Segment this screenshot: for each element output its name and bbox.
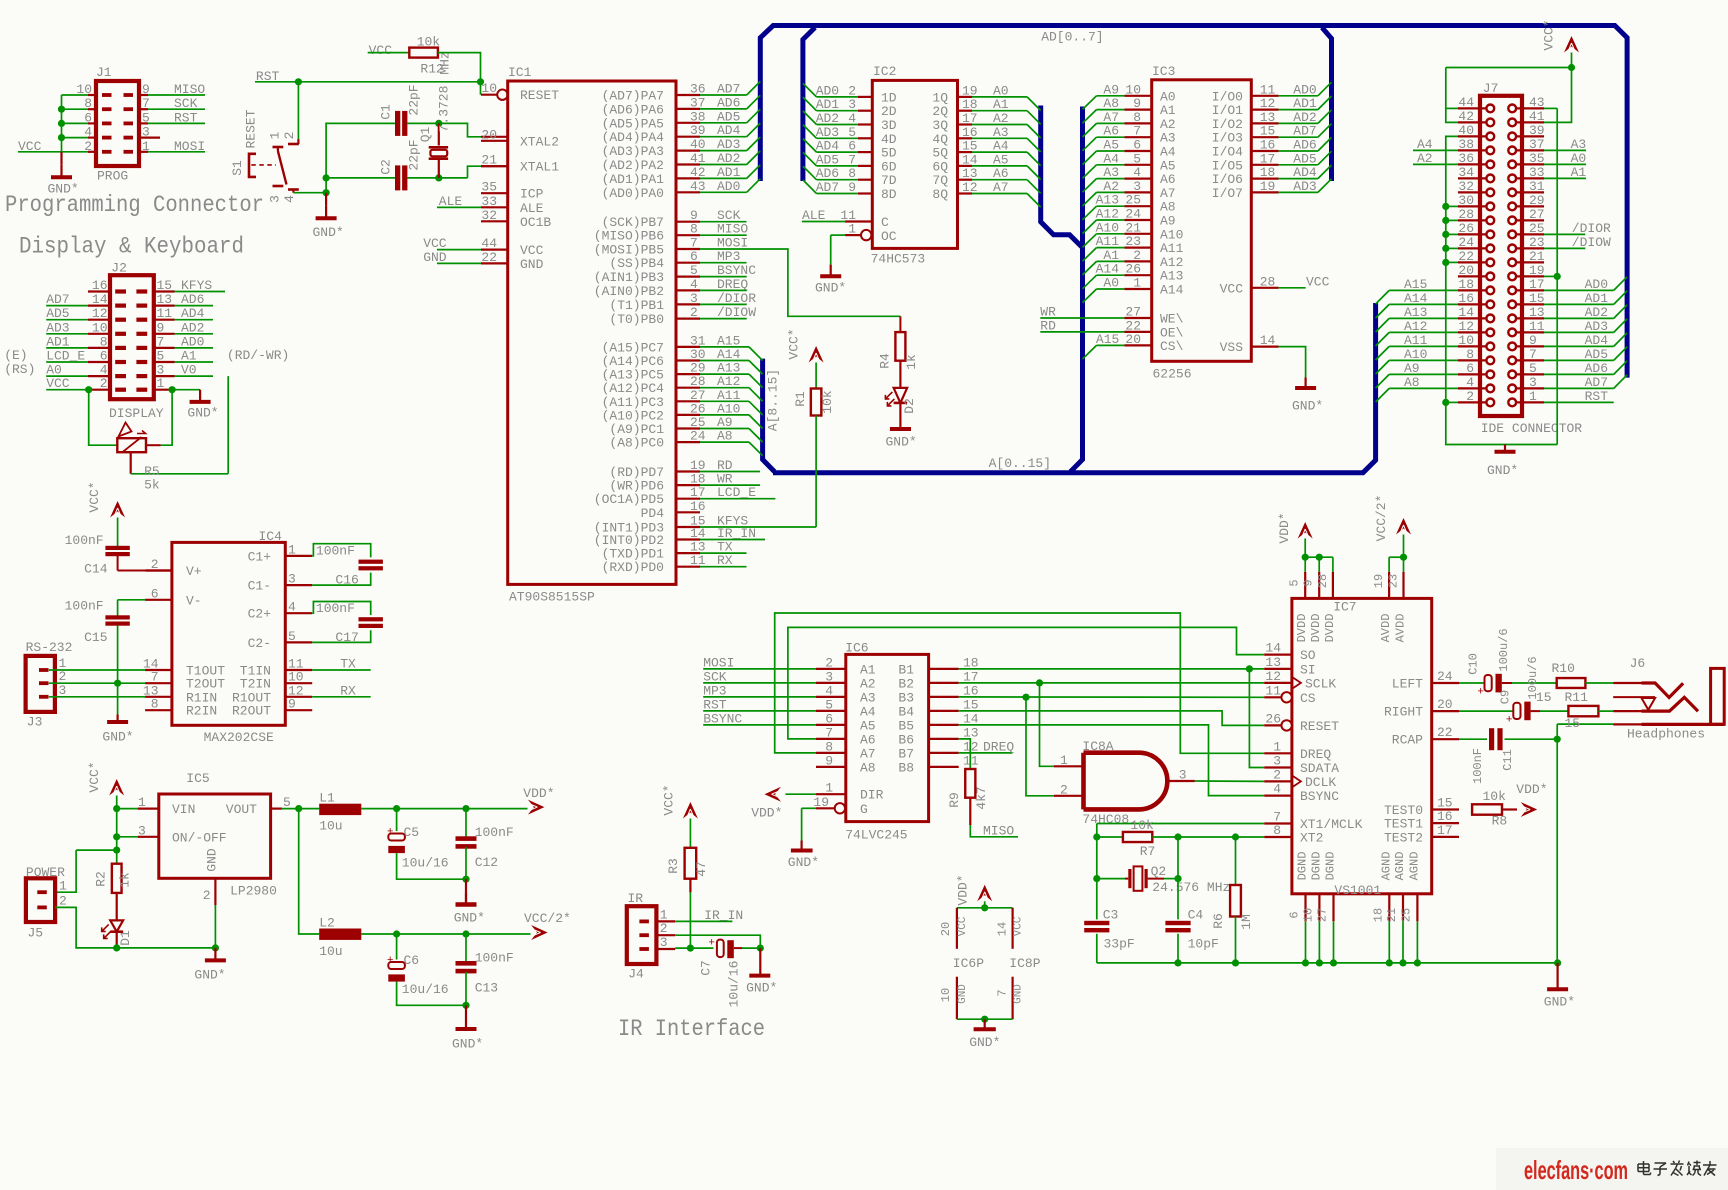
svg-text:IC8A: IC8A	[1082, 739, 1113, 754]
svg-text:GND*: GND*	[452, 1037, 483, 1052]
svg-text:R11: R11	[1565, 690, 1589, 705]
svg-text:36: 36	[1458, 151, 1474, 166]
svg-text:(AD6)PA6: (AD6)PA6	[602, 102, 664, 117]
svg-text:2: 2	[282, 132, 297, 140]
svg-text:13: 13	[1265, 655, 1281, 670]
svg-text:5: 5	[142, 110, 150, 125]
svg-text:10: 10	[1125, 82, 1141, 97]
svg-text:DCLK: DCLK	[1305, 775, 1336, 790]
svg-text:44: 44	[481, 236, 497, 251]
svg-text:I/O0: I/O0	[1212, 89, 1243, 104]
svg-text:2: 2	[1273, 767, 1281, 782]
svg-text:5Q: 5Q	[932, 146, 948, 161]
svg-text:C1: C1	[378, 104, 393, 120]
svg-text:8: 8	[1466, 347, 1474, 362]
svg-text:2: 2	[151, 557, 159, 572]
svg-text:7: 7	[1133, 124, 1141, 139]
svg-text:17: 17	[1529, 277, 1545, 292]
svg-text:9: 9	[1529, 333, 1537, 348]
svg-text:R2OUT: R2OUT	[232, 704, 271, 719]
svg-text:3: 3	[1133, 179, 1141, 194]
svg-text:3: 3	[268, 195, 283, 203]
svg-text:RD: RD	[1040, 318, 1056, 333]
svg-text:8: 8	[1133, 110, 1141, 125]
svg-text:CS\: CS\	[1160, 339, 1184, 354]
svg-text:10k: 10k	[1483, 789, 1507, 804]
svg-text:A8: A8	[1160, 200, 1176, 215]
svg-text:GND*: GND*	[788, 855, 819, 870]
svg-text:A1: A1	[1571, 165, 1587, 180]
svg-text:3: 3	[138, 823, 146, 838]
svg-text:TX: TX	[340, 657, 356, 672]
svg-text:AD5: AD5	[1585, 347, 1608, 362]
svg-text:B4: B4	[898, 704, 914, 719]
svg-text:16: 16	[690, 499, 706, 514]
svg-text:11: 11	[1265, 683, 1281, 698]
svg-text:20: 20	[1437, 697, 1453, 712]
svg-text:37: 37	[1529, 137, 1545, 152]
svg-text:C9: C9	[1499, 690, 1513, 704]
svg-text:22: 22	[1458, 249, 1474, 264]
svg-text:21: 21	[1125, 220, 1141, 235]
svg-text:WR: WR	[1040, 305, 1056, 320]
svg-text:A1: A1	[181, 349, 197, 364]
svg-text:25: 25	[1125, 193, 1141, 208]
svg-text:6: 6	[1288, 911, 1302, 918]
svg-text:DGND: DGND	[1309, 852, 1323, 881]
svg-text:(AD5)PA5: (AD5)PA5	[602, 116, 664, 131]
svg-text:AVDD: AVDD	[1394, 614, 1408, 643]
svg-text:C12: C12	[475, 855, 498, 870]
svg-text:47: 47	[694, 861, 709, 877]
svg-text:4: 4	[825, 683, 833, 698]
svg-text:A0: A0	[1571, 151, 1587, 166]
svg-text:B8: B8	[898, 760, 914, 775]
svg-text:1k: 1k	[118, 872, 133, 888]
svg-text:ALE: ALE	[802, 208, 826, 223]
svg-text:C13: C13	[475, 981, 498, 996]
svg-text:16: 16	[92, 278, 108, 293]
svg-text:VDD*: VDD*	[523, 786, 554, 801]
svg-text:RIGHT: RIGHT	[1384, 705, 1423, 720]
svg-text:AD4: AD4	[1585, 333, 1609, 348]
svg-text:22pF: 22pF	[407, 84, 422, 115]
svg-text:MOSI: MOSI	[703, 655, 734, 670]
svg-text:MISO: MISO	[174, 82, 205, 97]
svg-text:1: 1	[1529, 389, 1537, 404]
svg-text:10k: 10k	[820, 390, 835, 414]
svg-text:5: 5	[157, 349, 165, 364]
svg-text:Display & Keyboard: Display & Keyboard	[19, 234, 244, 260]
svg-text:A6: A6	[860, 732, 876, 747]
svg-text:R1: R1	[793, 391, 808, 407]
svg-text:DVDD: DVDD	[1309, 614, 1323, 643]
svg-text:8: 8	[84, 96, 92, 111]
svg-text:10pF: 10pF	[1188, 937, 1219, 952]
svg-text:13: 13	[1529, 305, 1545, 320]
svg-text:B1: B1	[898, 662, 914, 677]
svg-text:B7: B7	[898, 746, 914, 761]
svg-text:VS1001: VS1001	[1334, 883, 1381, 898]
svg-text:IC1: IC1	[508, 65, 532, 80]
svg-text:RESET: RESET	[1300, 719, 1339, 734]
svg-text:14: 14	[1265, 641, 1281, 656]
svg-text:(AD1)PA1: (AD1)PA1	[602, 172, 665, 187]
svg-text:31: 31	[1529, 179, 1545, 194]
svg-text:A15: A15	[1096, 332, 1119, 347]
svg-text:IR: IR	[628, 891, 644, 906]
svg-text:16: 16	[1458, 291, 1474, 306]
svg-text:A4: A4	[1160, 145, 1176, 160]
svg-text:100nF: 100nF	[475, 825, 514, 840]
svg-text:3: 3	[825, 669, 833, 684]
svg-text:C2: C2	[378, 159, 393, 175]
svg-text:(AIN1)PB3: (AIN1)PB3	[594, 270, 664, 285]
svg-text:OC: OC	[881, 229, 897, 244]
svg-text:A[8..15]: A[8..15]	[766, 369, 781, 431]
svg-text:6: 6	[151, 586, 159, 601]
svg-text:B2: B2	[898, 676, 914, 691]
svg-text:VCC: VCC	[18, 139, 42, 154]
svg-text:DVDD: DVDD	[1295, 614, 1309, 643]
svg-text:C7: C7	[699, 960, 714, 976]
svg-text:C3: C3	[1103, 908, 1119, 923]
svg-text:AD6: AD6	[1585, 361, 1608, 376]
svg-text:14: 14	[1260, 333, 1276, 348]
svg-text:VCC*: VCC*	[87, 761, 102, 792]
svg-text:IDE CONNECTOR: IDE CONNECTOR	[1481, 421, 1583, 436]
svg-text:(RS): (RS)	[4, 362, 35, 377]
svg-text:4: 4	[1466, 375, 1474, 390]
svg-text:A5: A5	[1160, 158, 1176, 173]
svg-text:VCC: VCC	[1012, 916, 1024, 936]
svg-text:IC8P: IC8P	[1009, 956, 1040, 971]
svg-text:7: 7	[1529, 347, 1537, 362]
svg-text:2: 2	[1060, 782, 1068, 797]
svg-text:17: 17	[1437, 823, 1453, 838]
svg-text:elecfans·com: elecfans·com	[1524, 1155, 1628, 1185]
svg-text:27: 27	[1316, 908, 1330, 922]
svg-text:AD2: AD2	[1585, 305, 1608, 320]
svg-text:C17: C17	[335, 630, 358, 645]
svg-text:2: 2	[59, 894, 67, 909]
svg-text:IR_IN: IR_IN	[704, 908, 743, 923]
svg-text:3Q: 3Q	[932, 118, 948, 133]
svg-text:44: 44	[1458, 95, 1474, 110]
svg-text:J4: J4	[628, 967, 644, 982]
svg-text:VCC: VCC	[423, 236, 447, 251]
svg-text:7: 7	[142, 96, 150, 111]
svg-text:RST: RST	[703, 697, 727, 712]
svg-text:10: 10	[1458, 333, 1474, 348]
svg-text:28: 28	[1316, 574, 1330, 588]
svg-text:7: 7	[996, 989, 1010, 996]
svg-text:LEFT: LEFT	[1392, 677, 1423, 692]
svg-text:4: 4	[282, 195, 297, 203]
svg-text:4: 4	[1133, 165, 1141, 180]
svg-text:IC5: IC5	[186, 771, 209, 786]
svg-text:J3: J3	[27, 715, 43, 730]
svg-text:18: 18	[1371, 908, 1385, 922]
svg-text:1: 1	[138, 795, 146, 810]
svg-text:100nF: 100nF	[475, 951, 514, 966]
svg-text:B3: B3	[898, 690, 914, 705]
svg-text:14: 14	[1458, 305, 1474, 320]
svg-text:GND*: GND*	[969, 1035, 1000, 1050]
svg-text:10: 10	[939, 988, 953, 1002]
svg-text:(T1)PB1: (T1)PB1	[609, 298, 664, 313]
svg-text:RESET: RESET	[520, 88, 559, 103]
svg-text:10: 10	[76, 82, 92, 97]
svg-text:14: 14	[92, 292, 108, 307]
svg-text:1: 1	[1060, 753, 1068, 768]
svg-text:L2: L2	[319, 916, 335, 931]
svg-text:24.576 MHz: 24.576 MHz	[1152, 880, 1230, 895]
svg-text:28: 28	[1260, 274, 1276, 289]
svg-text:RCAP: RCAP	[1392, 733, 1423, 748]
svg-text:XTAL1: XTAL1	[520, 160, 559, 175]
svg-text:OC1B: OC1B	[520, 215, 551, 230]
svg-text:(AD7)PA7: (AD7)PA7	[602, 89, 664, 104]
svg-text:1k: 1k	[904, 354, 919, 370]
svg-text:AD6: AD6	[181, 292, 204, 307]
svg-text:D2: D2	[902, 398, 917, 414]
svg-text:10u/16: 10u/16	[402, 982, 449, 997]
svg-text:A13: A13	[1160, 269, 1183, 284]
svg-text:5: 5	[288, 629, 296, 644]
svg-text:GND*: GND*	[1487, 463, 1518, 478]
svg-text:20: 20	[1125, 332, 1141, 347]
svg-text:AGND: AGND	[1407, 852, 1421, 881]
svg-text:33: 33	[481, 194, 497, 209]
svg-text:A3: A3	[1571, 137, 1587, 152]
svg-text:19: 19	[1372, 574, 1386, 588]
svg-text:32: 32	[481, 208, 497, 223]
svg-text:6: 6	[690, 249, 698, 264]
svg-text:100u/6: 100u/6	[1497, 628, 1511, 671]
svg-text:XT2: XT2	[1300, 831, 1323, 846]
svg-text:18: 18	[1260, 165, 1276, 180]
svg-text:VDD*: VDD*	[956, 874, 971, 905]
svg-text:27: 27	[1125, 305, 1141, 320]
svg-text:1Q: 1Q	[932, 90, 948, 105]
svg-text:WE\: WE\	[1160, 312, 1184, 327]
svg-text:1M: 1M	[1239, 914, 1254, 930]
svg-text:20: 20	[939, 922, 953, 936]
svg-text:A14: A14	[1160, 283, 1184, 298]
svg-text:3: 3	[660, 935, 668, 950]
svg-text:2: 2	[660, 921, 668, 936]
svg-text:4k7: 4k7	[974, 786, 989, 809]
svg-text:100nF: 100nF	[65, 533, 104, 548]
svg-text:R8: R8	[1492, 814, 1508, 829]
svg-text:25: 25	[1529, 221, 1545, 236]
svg-text:I/O2: I/O2	[1212, 117, 1243, 132]
svg-text:A1: A1	[860, 662, 876, 677]
svg-text:(E): (E)	[4, 348, 27, 363]
svg-text:IC7: IC7	[1333, 600, 1356, 615]
svg-text:G: G	[860, 802, 868, 817]
svg-text:4: 4	[84, 125, 92, 140]
svg-text:C2-: C2-	[248, 636, 271, 651]
svg-text:VDD*: VDD*	[1516, 782, 1547, 797]
svg-text:17: 17	[1260, 151, 1276, 166]
svg-text:4: 4	[1273, 782, 1281, 797]
svg-text:16: 16	[1437, 809, 1453, 824]
svg-text:4: 4	[288, 600, 296, 615]
svg-text:34: 34	[1458, 165, 1474, 180]
svg-text:VCC*: VCC*	[1542, 19, 1557, 50]
svg-text:+: +	[1477, 687, 1484, 699]
svg-text:GND*: GND*	[886, 435, 917, 450]
svg-text:1: 1	[268, 131, 283, 139]
svg-text:IC6: IC6	[845, 641, 868, 656]
svg-text:2: 2	[84, 139, 92, 154]
svg-text:23: 23	[1125, 234, 1141, 249]
svg-text:(RD/-WR): (RD/-WR)	[227, 348, 289, 363]
svg-text:SCLK: SCLK	[1305, 676, 1336, 691]
svg-text:S1: S1	[230, 160, 245, 176]
svg-text:DIR: DIR	[860, 788, 884, 803]
svg-text:J5: J5	[28, 926, 44, 941]
svg-text:(AIN0)PB2: (AIN0)PB2	[594, 284, 664, 299]
svg-text:(RXD)PD0: (RXD)PD0	[602, 560, 664, 575]
svg-text:VCC: VCC	[957, 916, 969, 936]
svg-text:A2: A2	[1160, 117, 1176, 132]
svg-text:27: 27	[1529, 207, 1545, 222]
svg-text:A4: A4	[860, 704, 876, 719]
svg-text:C1-: C1-	[248, 579, 271, 594]
svg-text:PROG: PROG	[97, 169, 128, 184]
svg-text:B6: B6	[898, 732, 914, 747]
svg-text:8: 8	[690, 222, 698, 237]
svg-text:AGND: AGND	[1379, 852, 1393, 881]
svg-text:PD4: PD4	[641, 506, 665, 521]
svg-text:RST: RST	[174, 110, 198, 125]
svg-text:RS-232: RS-232	[26, 640, 73, 655]
svg-text:LP2980: LP2980	[230, 884, 277, 899]
svg-text:A10: A10	[1160, 227, 1183, 242]
svg-text:8D: 8D	[881, 187, 897, 202]
svg-text:GND*: GND*	[102, 730, 133, 745]
svg-text:R9: R9	[947, 792, 962, 808]
svg-text:R6: R6	[1211, 913, 1226, 929]
svg-text:AD0: AD0	[1585, 277, 1608, 292]
svg-text:A9: A9	[1160, 214, 1176, 229]
svg-text:25: 25	[1399, 908, 1413, 922]
svg-text:74LVC245: 74LVC245	[845, 828, 907, 843]
svg-text:1: 1	[1273, 739, 1281, 754]
svg-text:J2: J2	[111, 261, 127, 276]
svg-text:5: 5	[1529, 361, 1537, 376]
svg-text:GND*: GND*	[194, 968, 225, 983]
svg-text:10: 10	[481, 81, 497, 96]
svg-text:C: C	[881, 215, 889, 230]
svg-text:1: 1	[1133, 276, 1141, 291]
svg-text:74HC573: 74HC573	[871, 252, 926, 267]
svg-text:AD4: AD4	[181, 306, 205, 321]
svg-text:C15: C15	[84, 630, 107, 645]
svg-text:AD0: AD0	[181, 334, 204, 349]
svg-text:MHz: MHz	[437, 51, 452, 74]
svg-text:SCK: SCK	[174, 96, 198, 111]
svg-text:12: 12	[1260, 96, 1276, 111]
svg-text:MP3: MP3	[703, 683, 726, 698]
svg-text:1D: 1D	[881, 90, 897, 105]
svg-text:100nF: 100nF	[316, 601, 355, 616]
svg-text:TEST1: TEST1	[1384, 817, 1423, 832]
svg-text:10k: 10k	[1130, 818, 1154, 833]
svg-text:GND: GND	[423, 250, 447, 265]
svg-text:GND: GND	[1012, 984, 1024, 1004]
svg-text:ON/-OFF: ON/-OFF	[172, 830, 227, 845]
svg-text:35: 35	[481, 180, 497, 195]
svg-text:21: 21	[1385, 908, 1399, 922]
svg-text:Headphones: Headphones	[1627, 727, 1705, 742]
svg-text:(AD4)PA4: (AD4)PA4	[602, 130, 665, 145]
svg-text:MOSI: MOSI	[174, 139, 205, 154]
svg-text:8: 8	[100, 334, 108, 349]
svg-text:2D: 2D	[881, 104, 897, 119]
svg-text:6: 6	[1133, 138, 1141, 153]
svg-text:11: 11	[1529, 319, 1545, 334]
svg-text:2: 2	[825, 655, 833, 670]
svg-text:62256: 62256	[1153, 367, 1192, 382]
svg-text:3: 3	[142, 125, 150, 140]
svg-text:A8: A8	[860, 760, 876, 775]
svg-text:1: 1	[660, 907, 668, 922]
svg-text:35: 35	[1529, 151, 1545, 166]
svg-text:40: 40	[1458, 123, 1474, 138]
svg-text:IC4: IC4	[259, 529, 283, 544]
svg-text:VCC*: VCC*	[87, 481, 102, 512]
svg-text:Q2: Q2	[1151, 864, 1167, 879]
svg-text:AD1: AD1	[1585, 291, 1609, 306]
svg-text:KFYS: KFYS	[181, 278, 212, 293]
svg-text:AD5: AD5	[46, 306, 69, 321]
svg-text:10: 10	[92, 320, 108, 335]
svg-text:AD7: AD7	[46, 292, 69, 307]
svg-text:2: 2	[1466, 389, 1474, 404]
svg-text:A3: A3	[860, 690, 876, 705]
svg-text:(AD0)PA0: (AD0)PA0	[602, 186, 664, 201]
svg-text:10k: 10k	[417, 35, 441, 50]
svg-text:AT90S8515SP: AT90S8515SP	[509, 590, 595, 605]
svg-text:8: 8	[825, 739, 833, 754]
svg-text:23: 23	[1387, 574, 1401, 588]
svg-text:+: +	[1506, 715, 1513, 727]
svg-text:13: 13	[1260, 110, 1276, 125]
svg-text:15: 15	[1529, 291, 1545, 306]
svg-text:(A8)PC0: (A8)PC0	[609, 436, 664, 451]
svg-text:VCC: VCC	[1306, 274, 1330, 289]
svg-text:15: 15	[1260, 124, 1276, 139]
svg-text:Programming Connector: Programming Connector	[5, 192, 264, 218]
svg-text:AD7: AD7	[1585, 375, 1608, 390]
svg-text:SI: SI	[1300, 662, 1316, 677]
svg-text:9: 9	[1133, 96, 1141, 111]
svg-text:BSYNC: BSYNC	[1300, 789, 1339, 804]
svg-text:DREQ: DREQ	[1300, 747, 1331, 762]
svg-text:42: 42	[1458, 109, 1474, 124]
svg-text:MISO: MISO	[983, 823, 1014, 838]
svg-text:Q1: Q1	[418, 127, 433, 143]
svg-text:8: 8	[151, 697, 159, 712]
svg-text:15: 15	[1565, 716, 1581, 731]
svg-text:14: 14	[996, 922, 1010, 936]
svg-text:GND: GND	[957, 984, 969, 1004]
svg-text:43: 43	[1529, 95, 1545, 110]
